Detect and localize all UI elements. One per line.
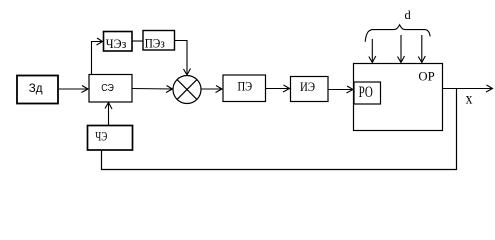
svg-text:ПЭ: ПЭ	[238, 79, 253, 93]
wire CHEz to PEz	[133, 40, 144, 42]
wire PEz right then down to summing junction with arrow	[175, 41, 191, 76]
svg-text:d: d	[405, 8, 412, 22]
block RO (regulating organ) inside OR	[354, 82, 381, 104]
wire CHE to SE bottom with arrow	[105, 103, 112, 126]
wire OR output to x with arrow	[443, 85, 493, 92]
wire IE to RO with arrow	[329, 86, 354, 93]
disturbance arrow 1	[369, 39, 376, 63]
block IE (actuating element)	[291, 77, 329, 102]
block SE (comparison element)	[89, 75, 132, 103]
svg-text:РО: РО	[359, 84, 373, 101]
block CHE (sensitive element)	[88, 126, 133, 151]
wire Zd to SE with arrow	[59, 86, 88, 93]
block PE (transforming element)	[223, 75, 266, 102]
svg-text:x: x	[466, 91, 473, 108]
block OR (controlled object), label top-right	[354, 64, 443, 131]
svg-text:Зд: Зд	[29, 81, 43, 95]
wire SE to summing junction with arrow	[133, 86, 173, 93]
disturbance brace	[365, 25, 430, 42]
svg-text:СЭ: СЭ	[101, 83, 114, 94]
wire summing junction to PE with arrow	[201, 86, 222, 93]
svg-text:ИЭ: ИЭ	[300, 80, 315, 94]
block Zd (setpoint)	[17, 76, 58, 104]
svg-text:ПЭз: ПЭз	[145, 37, 165, 51]
wire SE top to CHEz with arrow	[92, 38, 103, 74]
block CHEz (sensitive element of setter)	[104, 32, 133, 52]
summing junction (circle with X)	[173, 76, 201, 104]
feedback wire from output down, along bottom, up to CHE	[102, 89, 457, 170]
svg-text:ЧЭ: ЧЭ	[95, 129, 107, 143]
disturbance arrow 3	[418, 35, 425, 63]
wire PE to IE with arrow	[266, 85, 290, 92]
block PEz (transforming element of setter)	[143, 31, 175, 51]
svg-text:ОР: ОР	[418, 70, 434, 84]
svg-text:ЧЭз: ЧЭз	[106, 37, 127, 51]
disturbance arrow 2	[398, 35, 405, 63]
